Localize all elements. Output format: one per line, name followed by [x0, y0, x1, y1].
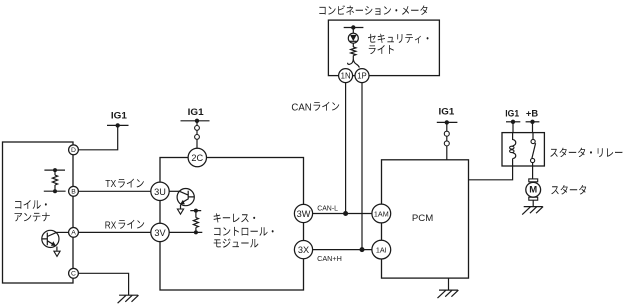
relay switch contact S1: [531, 133, 536, 166]
junction node CAN-H: [360, 247, 365, 252]
resistor (keyless module): [190, 211, 201, 233]
wire +B into relay: [532, 122, 534, 133]
starter relay box: [502, 133, 544, 166]
inline connector (keyless IG1 lower): [195, 135, 200, 140]
label security light line1: [368, 34, 428, 44]
output arrow (coil antenna): [54, 251, 60, 256]
label TX line (katakana line): [118, 179, 144, 188]
svg-text:IG1: IG1: [505, 109, 519, 119]
label keyless line2: [214, 227, 274, 236]
svg-text:3V: 3V: [154, 228, 166, 238]
junction dot keyless resistor bottom: [194, 230, 198, 234]
label RX line (katakana line): [119, 220, 145, 229]
svg-text:1AI: 1AI: [376, 246, 387, 255]
power source IG1 (coil antenna): [107, 123, 129, 127]
wire resistor split left: [348, 56, 354, 65]
wire RX line: [78, 231, 150, 233]
ground (starter motor): [522, 207, 543, 215]
inline connector (PCM IG1 upper): [444, 131, 449, 136]
transistor Q1 (coil antenna detector): [42, 230, 59, 247]
wire CAN line from 1P: [361, 83, 363, 250]
svg-text:1P: 1P: [357, 72, 367, 81]
svg-text:D: D: [71, 147, 76, 154]
label combination meter: [319, 5, 427, 15]
wire transistor out down: [180, 205, 182, 209]
keyless control module box: [160, 158, 304, 291]
wire terminal C to ground: [78, 273, 128, 295]
wire resistor split right: [353, 59, 359, 67]
svg-text:IG1: IG1: [439, 107, 455, 118]
starter motor M1: [526, 179, 541, 200]
output arrow (keyless): [177, 209, 183, 214]
svg-text:3U: 3U: [154, 187, 166, 197]
svg-text:1N: 1N: [341, 72, 351, 81]
wire IG1 to terminal D: [78, 125, 117, 149]
terminal C: [69, 268, 79, 278]
wire 3V to resistor: [169, 231, 202, 233]
svg-text:IG1: IG1: [111, 111, 128, 122]
junction dot resistor bottom: [53, 189, 57, 193]
ground (PCM): [438, 290, 459, 298]
wire PCM IG1 chain: [446, 122, 448, 159]
resistor (security light): [351, 47, 356, 56]
terminal 1AI: [372, 240, 391, 259]
junction node CAN-L: [343, 211, 348, 216]
wire PCM ground stub: [448, 278, 450, 290]
svg-text:3X: 3X: [298, 245, 309, 255]
terminal 1N: [339, 69, 353, 83]
wire IG1 to connector: [196, 121, 198, 149]
terminal 3X: [294, 241, 312, 259]
wire 3U to transistor: [169, 190, 178, 192]
LED security light D1: [348, 33, 358, 43]
power source IG1 (PCM): [437, 120, 458, 124]
terminal 3V: [151, 223, 169, 241]
power source (security light): [344, 25, 364, 29]
svg-text:A: A: [71, 229, 76, 236]
terminal 1AM: [372, 204, 391, 223]
label starter relay: [550, 148, 622, 158]
terminal B: [69, 186, 79, 196]
svg-text:RX: RX: [105, 220, 117, 231]
label CAN line (katakana): [314, 102, 340, 111]
terminal A: [69, 228, 79, 238]
wire CAN-L 3W to 1AM: [313, 213, 372, 215]
label security light line2: [369, 45, 394, 54]
relay coil L1: [510, 133, 516, 166]
wire transistor emitter out: [56, 247, 58, 251]
wire CAN-H 3X to 1AI: [313, 249, 372, 251]
label keyless line1: [214, 213, 256, 222]
terminal 3U: [151, 182, 169, 200]
junction dot resistor top: [53, 168, 57, 172]
coil antenna box: [3, 142, 74, 283]
wire CAN line from 1N: [345, 83, 347, 214]
svg-text:C: C: [71, 270, 76, 277]
inline connector (keyless IG1 upper): [195, 126, 200, 131]
svg-text:PCM: PCM: [412, 213, 433, 224]
combination meter box: [328, 20, 439, 76]
power source IG1 (relay): [506, 120, 520, 124]
wire motor to ground: [532, 200, 534, 206]
terminal 1P: [355, 69, 369, 83]
transistor Q2 (keyless module): [177, 189, 194, 206]
terminal 2C: [188, 148, 206, 166]
wire transistor to terminal A: [56, 231, 68, 233]
wire TX line: [78, 190, 150, 192]
svg-text:B: B: [71, 188, 76, 195]
inline connector (PCM IG1 lower): [444, 141, 449, 146]
svg-text:2C: 2C: [191, 153, 203, 163]
svg-text:+B: +B: [526, 109, 539, 119]
svg-text:1AM: 1AM: [374, 210, 389, 219]
svg-text:CAN: CAN: [291, 102, 311, 113]
wire to LED: [352, 28, 354, 34]
wire relay coil to PCM: [469, 166, 513, 180]
resistor (coil antenna tuning): [44, 170, 66, 191]
label coil antenna line2: [15, 213, 50, 222]
PCM box: [382, 160, 469, 278]
wire LED to resistor: [352, 43, 354, 47]
terminal 3W: [294, 204, 312, 222]
power source IG1 (keyless): [181, 119, 210, 123]
svg-text:TX: TX: [105, 179, 116, 190]
power source +B (relay): [526, 120, 540, 124]
svg-text:CAN+H: CAN+H: [317, 256, 342, 263]
label starter: [551, 185, 586, 195]
svg-text:CAN-L: CAN-L: [317, 206, 338, 213]
wire relay switch to starter: [532, 166, 534, 179]
junction dot keyless resistor top: [194, 209, 198, 213]
svg-text:IG1: IG1: [188, 107, 205, 118]
svg-text:M: M: [529, 185, 537, 196]
ground (coil antenna): [118, 295, 139, 303]
wire IG1 into relay: [512, 122, 514, 133]
label keyless line3: [214, 239, 259, 248]
svg-text:3W: 3W: [297, 209, 311, 219]
label coil antenna line1: [15, 200, 47, 209]
terminal D: [69, 145, 79, 155]
